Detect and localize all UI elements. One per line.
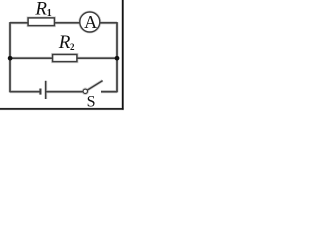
resistor R2	[53, 55, 77, 62]
wire top: left corner to right corner	[10, 22, 117, 24]
node right junction	[115, 56, 120, 61]
wire bottom right segment	[101, 91, 117, 93]
wire bottom left segment	[10, 91, 40, 93]
svg-text:R: R	[58, 32, 71, 53]
page border bottom	[0, 108, 124, 110]
svg-text:1: 1	[47, 8, 52, 19]
wire middle branch	[10, 57, 117, 59]
svg-text:A: A	[84, 12, 97, 32]
node left junction	[8, 56, 13, 61]
resistor R1	[28, 18, 54, 26]
battery: long positive plate	[45, 81, 47, 99]
wire right vertical	[116, 22, 118, 92]
ammeter A	[80, 12, 100, 32]
wire bottom middle segment	[46, 91, 83, 93]
wire left vertical	[9, 22, 11, 92]
switch S lever	[87, 81, 102, 91]
battery: short negative plate	[39, 89, 41, 95]
svg-text:2: 2	[70, 42, 75, 52]
svg-text:R: R	[34, 0, 47, 20]
svg-text:S: S	[87, 93, 96, 110]
page border right	[122, 0, 124, 110]
switch S pivot circle	[83, 89, 87, 93]
